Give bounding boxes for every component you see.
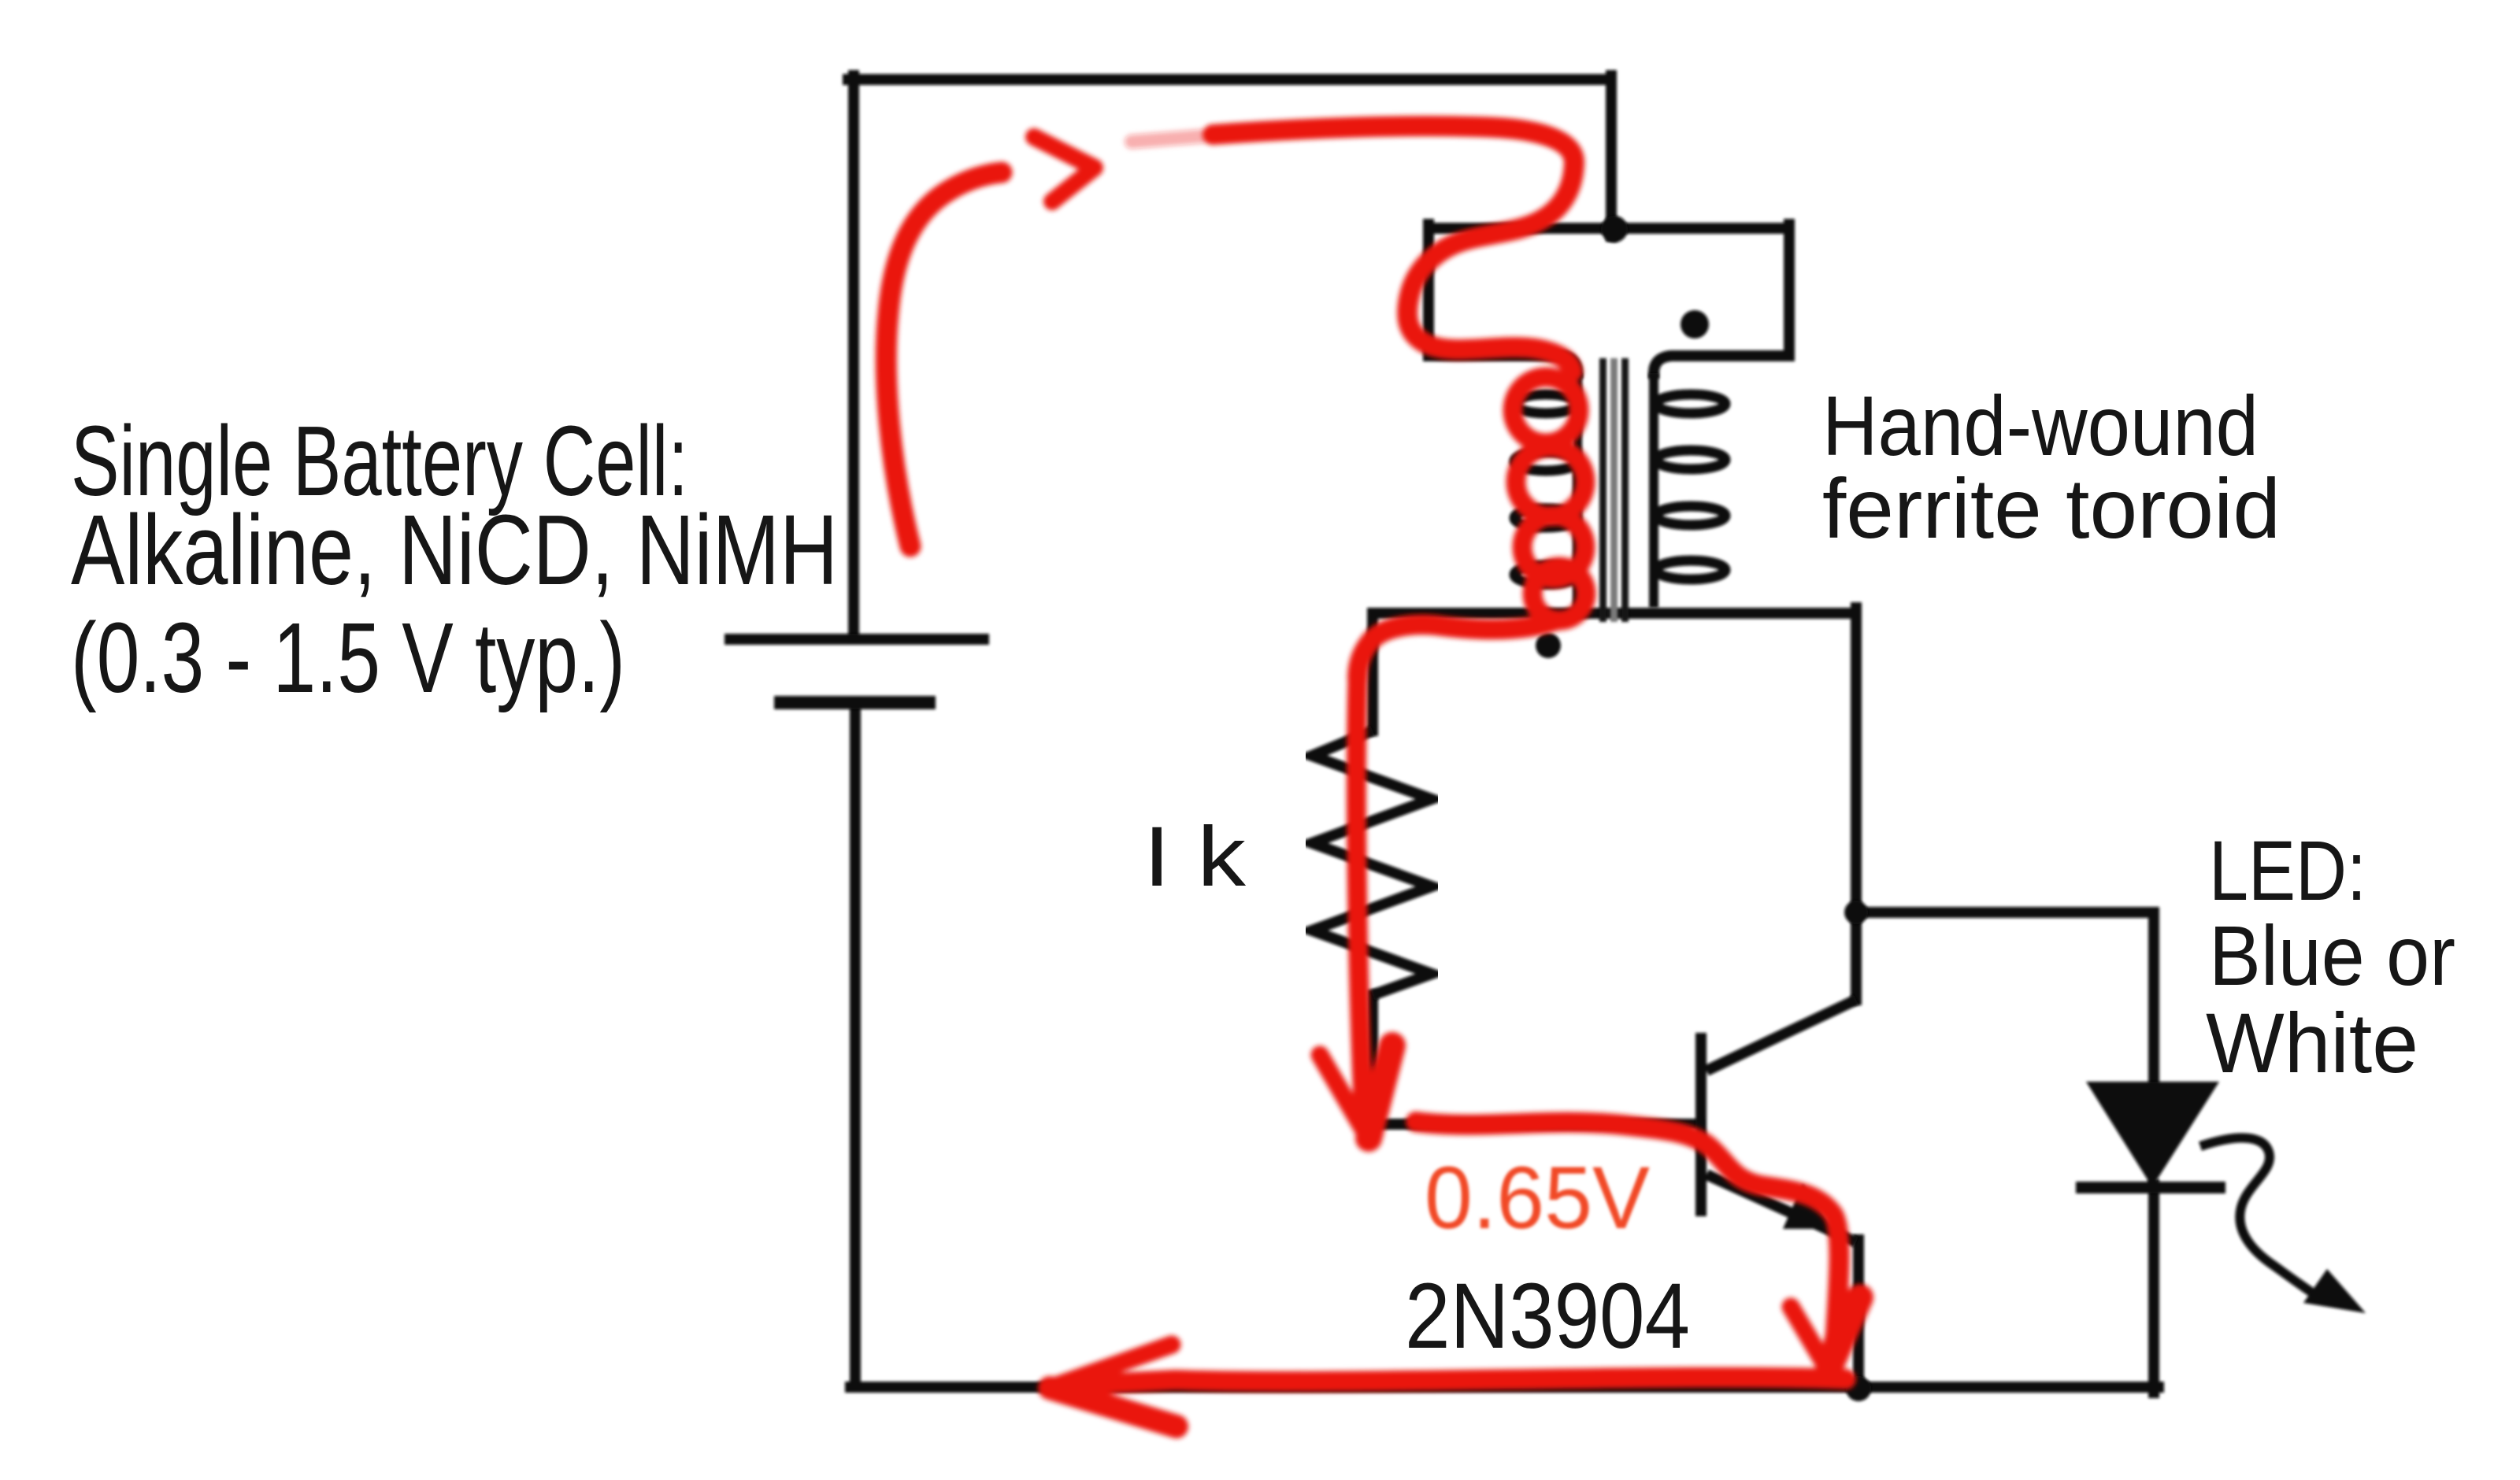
LED triangle anode: [2086, 1082, 2219, 1187]
emitter arrowhead: [1783, 1184, 1835, 1229]
red winding loop 4: [1532, 567, 1586, 620]
transformer core line left: [1599, 358, 1606, 622]
wire transformer left rect vertical: [1423, 224, 1434, 356]
red path winding exit to resistor top: [1358, 620, 1556, 679]
svg-text:0.65V: 0.65V: [1425, 1149, 1650, 1247]
secondary winding turn 2: [1656, 450, 1725, 469]
wire transformer left rect bottom: [1429, 356, 1577, 373]
transformer core line middle: [1610, 358, 1618, 622]
primary winding turn 1: [1514, 394, 1577, 413]
secondary winding turn 4: [1656, 561, 1725, 579]
red arrowhead resistor bottom: [1320, 1055, 1367, 1136]
svg-text:White: White: [2206, 995, 2418, 1090]
svg-text:Hand-wound: Hand-wound: [1822, 378, 2259, 473]
svg-text:2N3904: 2N3904: [1405, 1264, 1690, 1368]
red winding loop 2: [1516, 447, 1585, 516]
wire transformer right rect bottom: [1654, 356, 1789, 373]
red wire path top to winding: [1132, 135, 1213, 142]
primary winding turn 4: [1514, 565, 1577, 584]
wire base horizontal: [1373, 1119, 1698, 1130]
phase dot primary bottom: [1536, 633, 1561, 658]
wire resistor bottom lead: [1367, 995, 1378, 1124]
red bottom current line: [1065, 1378, 1846, 1386]
LED cathode bar: [2076, 1182, 2225, 1193]
svg-text:I k: I k: [1143, 808, 1247, 904]
red arrowhead transistor emitter: [1791, 1307, 1827, 1368]
base bar: [1695, 1033, 1707, 1216]
secondary winding turn 1: [1656, 394, 1725, 413]
label: LED Blue or White: [2206, 823, 2455, 1090]
wire transformer right rect vertical: [1784, 224, 1795, 356]
LED squiggle arrowhead: [2303, 1269, 2366, 1313]
LED D1: [2076, 1082, 2366, 1313]
wire resistor top lead: [1367, 613, 1378, 731]
red wavy base wire 0.65V: [1416, 1122, 1840, 1360]
transformer T1 windings: [1514, 373, 1725, 612]
collector diagonal: [1707, 1000, 1856, 1071]
red line down resistor: [1356, 679, 1366, 1127]
label: Single Battery Cell: [71, 405, 838, 713]
label: Hand-wound ferrite toroid: [1822, 378, 2281, 556]
red arrowhead bottom left: [1050, 1345, 1172, 1388]
wire collector vertical: [1851, 608, 1862, 1000]
junction node emitter-bottom: [1846, 1376, 1871, 1401]
LED light squiggle arrow: [2200, 1138, 2319, 1297]
transistor Q1 2N3904: [1695, 1000, 1856, 1242]
wire LED cathode vertical: [2148, 1185, 2159, 1393]
red annotations: [886, 126, 1860, 1426]
wire LED top horizontal: [1856, 907, 2154, 918]
wire top horizontal: [848, 74, 1611, 85]
svg-text:ferrite toroid: ferrite toroid: [1822, 461, 2281, 556]
junction node top: [1601, 216, 1628, 242]
wire right vertical from top to junction: [1606, 76, 1617, 236]
wire transformer bottom horizontal: [1376, 608, 1856, 619]
wire transformer top rect horizontal: [1429, 223, 1789, 234]
svg-text:Blue or: Blue or: [2209, 908, 2455, 1003]
wire left vertical upper (battery +): [848, 76, 859, 635]
red winding loop 3: [1522, 516, 1585, 579]
emitter diagonal: [1707, 1175, 1856, 1242]
secondary winding turn 3: [1656, 506, 1725, 525]
red arrow battery current up: [886, 172, 1002, 546]
wire emitter vertical: [1853, 1240, 1864, 1387]
battery B1 short plate: [774, 696, 936, 709]
battery B1 long plate: [724, 634, 989, 645]
wire left vertical lower (battery -): [850, 705, 861, 1387]
phase dot secondary top: [1681, 310, 1709, 339]
resistor R1 1k: [1312, 731, 1432, 995]
svg-text:Alkaline, NiCD, NiMH: Alkaline, NiCD, NiMH: [71, 494, 838, 605]
svg-text:LED:: LED:: [2209, 823, 2366, 918]
primary winding spine: [1573, 373, 1582, 612]
primary winding turn 2: [1514, 452, 1577, 471]
red arrowhead top: [1034, 137, 1095, 202]
secondary winding spine: [1649, 373, 1658, 608]
primary winding turn 3: [1514, 509, 1577, 527]
wire LED anode vertical: [2148, 912, 2159, 1086]
svg-text:(0.3 - 1.5 V typ.): (0.3 - 1.5 V typ.): [71, 602, 625, 713]
junction node collector-LED: [1844, 901, 1868, 924]
transformer core line right: [1621, 358, 1629, 622]
red winding loop 1: [1513, 377, 1579, 443]
wire bottom horizontal: [850, 1382, 2159, 1393]
